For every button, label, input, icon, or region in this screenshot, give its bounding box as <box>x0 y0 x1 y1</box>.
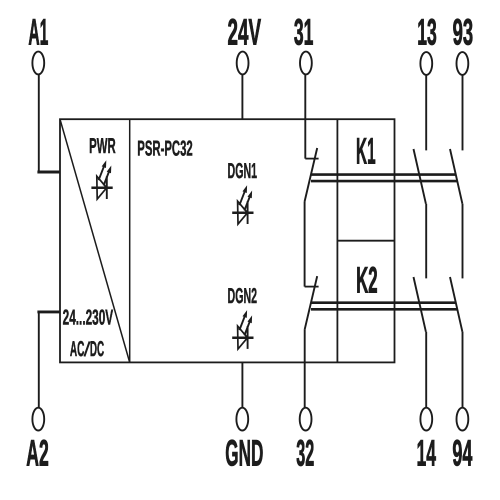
NO contact 93-94 arm (K1) <box>450 149 462 204</box>
terminal 32 <box>300 408 312 431</box>
svg-text:24V: 24V <box>228 12 262 53</box>
terminal 94 <box>457 408 469 431</box>
wire 13 <box>425 75 427 151</box>
wire A1 stub <box>37 171 60 174</box>
wire 31 <box>304 74 306 159</box>
LED DGN2 <box>232 310 253 349</box>
terminal 31 <box>300 52 312 75</box>
NC contact K2 fixed tick <box>305 286 319 288</box>
K1 linkage line upper <box>311 173 456 176</box>
wire 93 <box>462 75 464 151</box>
terminal 24V <box>237 52 249 75</box>
device outline box <box>60 119 395 362</box>
svg-text:A2: A2 <box>26 432 49 473</box>
svg-text:24...230V: 24...230V <box>63 306 114 330</box>
svg-text:PWR: PWR <box>89 134 116 158</box>
svg-text:DGN1: DGN1 <box>228 159 258 183</box>
svg-text:DGN2: DGN2 <box>228 284 258 308</box>
wire GND <box>241 362 243 407</box>
wire 93-94 mid <box>462 204 464 279</box>
wire A1 vertical <box>38 74 40 172</box>
svg-text:13: 13 <box>417 12 437 53</box>
wire 94 <box>462 332 464 408</box>
wire 24V <box>241 74 243 119</box>
svg-text:PSR-PC32: PSR-PC32 <box>137 136 193 160</box>
wire A2 vertical <box>38 312 40 407</box>
svg-text:14: 14 <box>417 432 437 473</box>
K2 linkage line upper <box>311 301 456 304</box>
svg-text:GND: GND <box>225 432 263 473</box>
wire A2 stub <box>37 310 60 313</box>
LED PWR <box>91 160 112 199</box>
svg-text:A1: A1 <box>28 12 48 53</box>
svg-text:K2: K2 <box>356 260 378 301</box>
NO contact 13-14 arm (K2) <box>414 277 426 332</box>
terminal 93 <box>457 52 469 75</box>
svg-text:AC: AC <box>70 337 85 361</box>
K1/K2 divider <box>337 240 394 242</box>
power-supply divider <box>129 119 131 362</box>
NO contact 93-94 arm (K2) <box>450 277 462 332</box>
NO contact 13-14 arm (K1) <box>414 149 426 204</box>
terminal GND <box>236 408 248 431</box>
svg-text:93: 93 <box>453 12 474 53</box>
terminal 14 <box>420 408 432 431</box>
wire 13-14 mid <box>425 204 427 279</box>
terminal A2 <box>32 408 44 431</box>
svg-text:K1: K1 <box>356 131 376 172</box>
K1 linkage line lower <box>311 180 457 183</box>
svg-text:32: 32 <box>296 432 314 473</box>
svg-text:DC: DC <box>90 337 104 361</box>
wire 31-32 mid <box>304 202 306 287</box>
terminal 13 <box>420 52 432 75</box>
LED DGN1 <box>232 185 253 224</box>
terminal A1 <box>32 52 44 75</box>
NC contact 31-32 fixed tick <box>305 158 318 160</box>
svg-text:94: 94 <box>452 432 472 473</box>
NC contact 31-32 arm <box>305 148 318 202</box>
K2 linkage line lower <box>311 308 457 311</box>
power-supply diagonal <box>60 119 130 362</box>
label AC/DC slash <box>84 342 89 357</box>
wire 32 <box>304 330 306 407</box>
wire 14 <box>425 332 427 408</box>
relay column divider <box>336 119 338 362</box>
NC contact K2 arm <box>305 276 318 330</box>
svg-text:31: 31 <box>294 12 314 53</box>
